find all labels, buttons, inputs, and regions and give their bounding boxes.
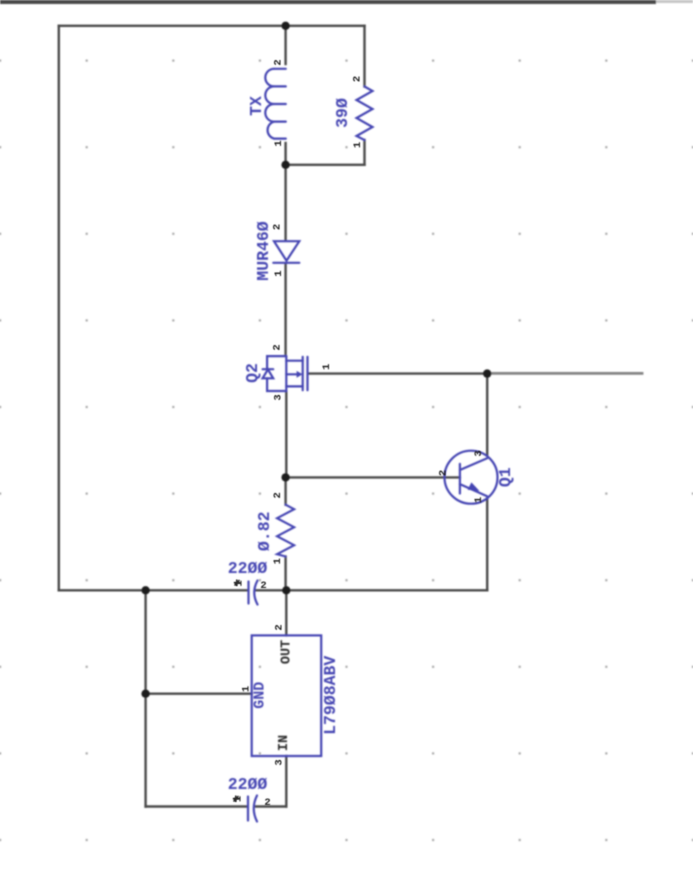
node: gate junction xyxy=(483,369,491,377)
wire: mosfet source down to node xyxy=(285,393,287,478)
wire: 390 branch bottom stub xyxy=(363,140,365,165)
wire: left lower rail xyxy=(144,590,146,806)
svg-text:1: 1 xyxy=(352,142,364,148)
top window edge bar xyxy=(0,0,656,4)
polarity mark cap bottom xyxy=(233,796,239,803)
wire: diode to mosfet xyxy=(284,264,286,355)
svg-text:3: 3 xyxy=(274,759,286,765)
svg-text:IN: IN xyxy=(277,735,292,751)
wire: TX top stub xyxy=(284,26,286,64)
wire: node to resistor top xyxy=(284,477,286,504)
wire: Q1 emitter vertical xyxy=(486,499,488,591)
svg-text:TX: TX xyxy=(247,96,266,116)
wire: regulator in pin xyxy=(285,756,287,807)
wire: left rail xyxy=(58,26,60,591)
svg-text:3: 3 xyxy=(272,394,284,400)
mosfet Q2 body xyxy=(263,356,308,391)
svg-text:Ø.82: Ø.82 xyxy=(255,511,274,551)
svg-text:3: 3 xyxy=(473,450,485,456)
wire: regulator out pin xyxy=(285,590,287,635)
svg-text:2: 2 xyxy=(272,224,284,230)
svg-text:2: 2 xyxy=(352,76,364,82)
svg-text:Q2: Q2 xyxy=(243,363,262,383)
wire: TX bottom stub xyxy=(284,143,286,165)
node: regulator out junction xyxy=(282,586,290,594)
wire: 390 branch top stub xyxy=(363,26,365,87)
node: gnd junction xyxy=(141,690,149,698)
svg-text:1: 1 xyxy=(273,140,285,146)
wire: loop bottom horizontal xyxy=(286,164,365,166)
dark pin names xyxy=(277,640,295,751)
resistor 0.82 zigzag xyxy=(277,505,294,557)
capacitor 2200 bottom plates xyxy=(248,796,257,822)
svg-text:2: 2 xyxy=(264,797,270,809)
resistor 390 zigzag xyxy=(357,87,373,141)
wire: gate horizontal xyxy=(309,372,488,374)
wire: bottom cap left xyxy=(146,805,246,807)
svg-text:2: 2 xyxy=(272,492,284,498)
svg-text:2: 2 xyxy=(260,580,266,592)
wire: bottom bus left of cap xyxy=(59,589,247,591)
svg-text:GND: GND xyxy=(251,682,268,709)
svg-text:1: 1 xyxy=(273,270,285,276)
regulator U1 box xyxy=(252,635,322,756)
svg-text:2: 2 xyxy=(274,624,286,630)
svg-text:2: 2 xyxy=(438,470,450,476)
transistor Q1 body xyxy=(445,451,498,504)
svg-text:2: 2 xyxy=(273,59,285,65)
svg-text:L79Ø8ABV: L79Ø8ABV xyxy=(321,656,340,735)
node: base junction xyxy=(281,473,289,481)
node: bottom bus left junction xyxy=(141,586,149,594)
svg-text:2: 2 xyxy=(272,344,284,350)
svg-text:22ØØ: 22ØØ xyxy=(228,559,268,578)
polarity mark cap top xyxy=(234,580,240,587)
wire: base horizontal xyxy=(286,476,460,478)
svg-text:1: 1 xyxy=(241,686,253,692)
wire: gnd horizontal xyxy=(146,693,252,695)
inductor TX coil xyxy=(265,69,286,139)
wire: resistor bottom to bottom bus xyxy=(284,557,286,591)
wire: bottom cap right xyxy=(256,805,286,807)
svg-text:39Ø: 39Ø xyxy=(333,98,352,128)
svg-text:MUR46Ø: MUR46Ø xyxy=(254,221,273,281)
diode MUR460 body xyxy=(274,241,299,261)
svg-text:1: 1 xyxy=(321,364,333,370)
wire: main vertical diode top xyxy=(284,165,286,241)
wire: Q1 collector vertical xyxy=(486,374,488,456)
svg-text:22ØØ: 22ØØ xyxy=(228,775,268,794)
wire: bottom bus right of cap xyxy=(257,589,488,591)
svg-text:1: 1 xyxy=(272,558,284,564)
svg-text:OUT: OUT xyxy=(280,640,295,664)
blue symbols xyxy=(248,69,498,822)
wires dark xyxy=(59,26,487,807)
blue labels xyxy=(228,96,515,794)
capacitor 2200 top plates xyxy=(249,581,258,605)
node: top TX junction xyxy=(281,22,289,30)
wire: gray output stub xyxy=(487,372,643,375)
svg-text:Q1: Q1 xyxy=(496,467,515,487)
wire: top horizontal bus xyxy=(59,25,365,27)
svg-text:1: 1 xyxy=(473,497,485,503)
node: loop bottom junction xyxy=(281,161,289,169)
